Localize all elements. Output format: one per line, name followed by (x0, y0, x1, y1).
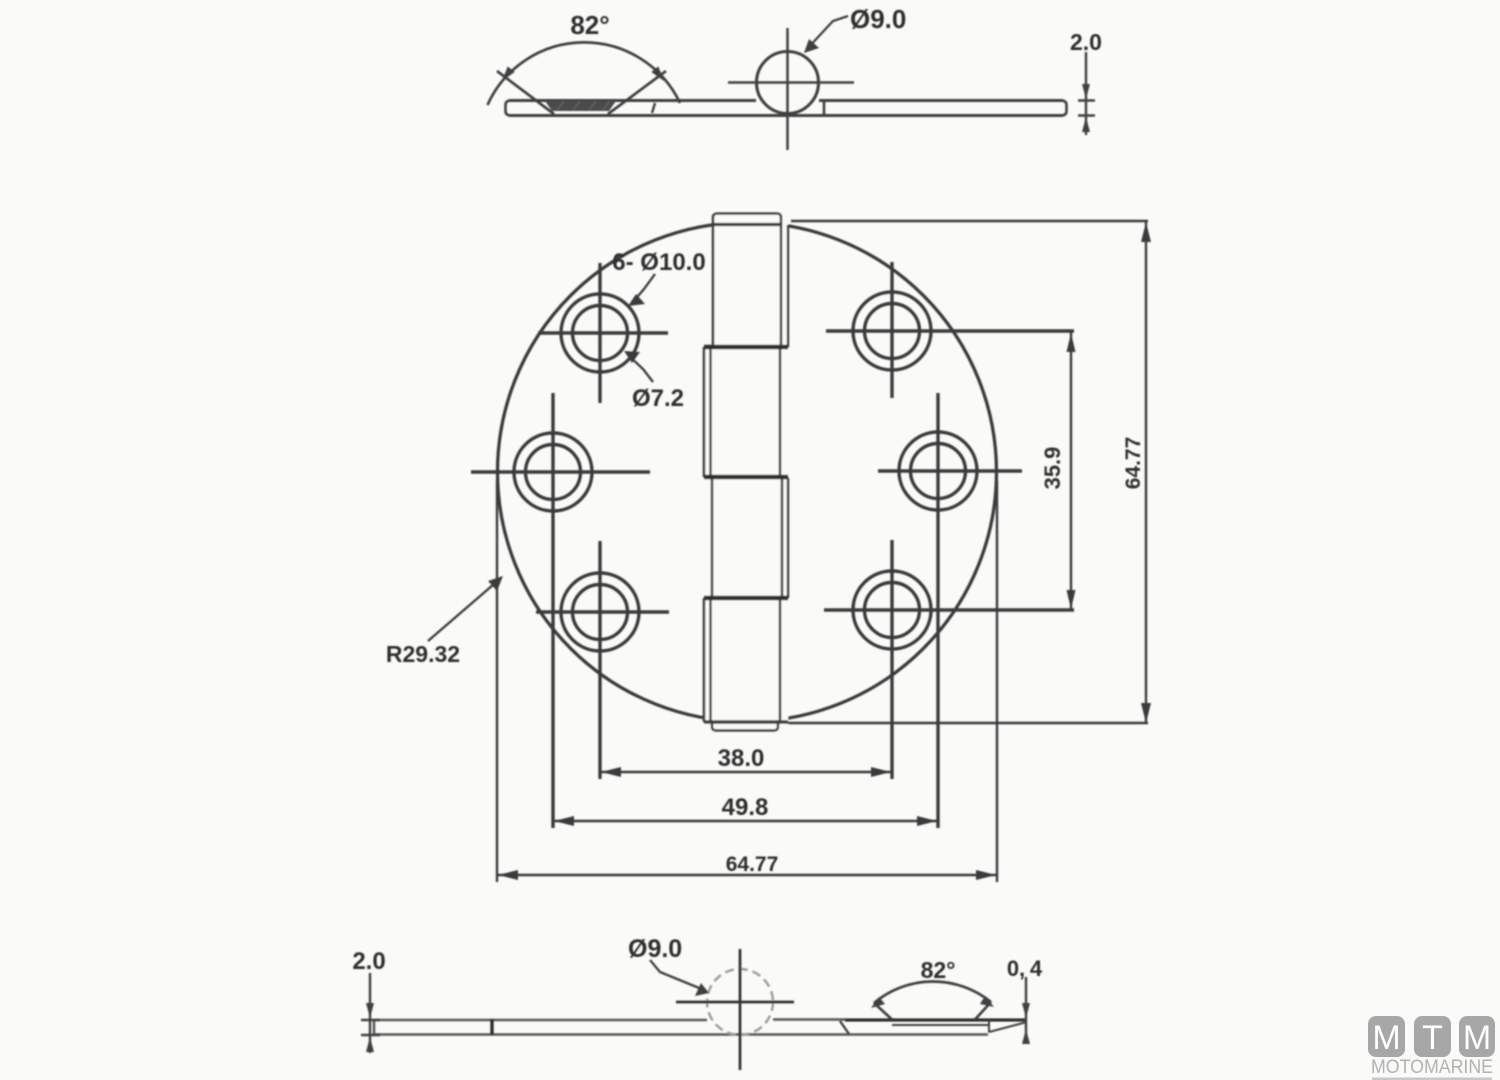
38.0 left arrowhead (601, 767, 621, 777)
barrel crosshair vertical (739, 949, 742, 1070)
vertical 35.9 dimension line (1070, 332, 1072, 610)
barrel bottom joint (704, 720, 788, 723)
barrel bottom cap (712, 722, 778, 731)
dimension line 64.77 horizontal (497, 874, 997, 876)
leaf divider tick (490, 1019, 493, 1035)
hole top-left inner (573, 306, 628, 361)
vertical 64.77 top arrowhead (1141, 222, 1151, 242)
svg-text:2.0: 2.0 (1070, 29, 1102, 55)
plate top edge (left of barrel) (509, 99, 756, 102)
dimension line 49.8 (553, 820, 938, 822)
svg-text:64.77: 64.77 (1122, 437, 1145, 490)
dia 9.0 leader arrowhead (695, 983, 709, 996)
vertical 35.9 bottom arrowhead (1067, 590, 1076, 609)
plate top edge right thick segment (845, 1018, 1026, 1021)
barrel crosshair horizontal (676, 1001, 794, 1004)
38.0 right arrowhead (871, 767, 891, 777)
hole mid-left outer (514, 433, 592, 511)
svg-text:6- Ø10.0: 6- Ø10.0 (612, 249, 705, 276)
barrel knuckle 2 (704, 347, 780, 477)
leader R29.32 (428, 578, 501, 641)
leader 6-dia10.0 (632, 274, 655, 303)
bottom extension line (788, 722, 1148, 724)
hole top-right outer (853, 292, 931, 370)
barrel crosshair horizontal (728, 81, 854, 84)
hole bottom-left crosshair (536, 541, 669, 779)
svg-text:0,: 0, (1007, 956, 1025, 981)
countersink right slant line (608, 71, 666, 114)
hole mid-right inner (911, 444, 966, 499)
hole bottom-right inner (865, 583, 920, 638)
leader dia7.2 arrowhead (624, 351, 640, 363)
plate top edge (right of barrel) (819, 99, 1063, 102)
hole mid-left inner (526, 445, 581, 500)
barrel joint line 2 (704, 475, 788, 480)
barrel top cap (713, 214, 781, 225)
0.4 dimension line (1025, 977, 1027, 1043)
svg-text:82°: 82° (570, 10, 609, 40)
hole mid-right outer (899, 432, 977, 510)
thickness 2.0 extension ticks (1078, 101, 1095, 116)
right extension line of 64.77 width (996, 481, 998, 882)
logo square T (1414, 1016, 1451, 1057)
vertical 64.77 bottom arrowhead (1141, 703, 1151, 723)
angle arc right arrowhead (651, 66, 664, 81)
vertical 64.77 dimension line (1145, 222, 1147, 723)
dia 9.0 leader line (807, 16, 848, 49)
64.77 left arrowhead (498, 870, 518, 880)
countersink dome left side (874, 1003, 892, 1020)
svg-text:49.8: 49.8 (722, 794, 769, 821)
dia 9.0 leader arrowhead (804, 39, 819, 53)
64.77 right arrowhead (976, 870, 996, 880)
tapered end bottom edge (989, 1023, 1025, 1033)
hole top-right inner (865, 304, 920, 359)
plate left end (373, 1019, 376, 1036)
dia 9.0 leader (650, 960, 704, 990)
2.0 upper arrowhead (366, 1003, 374, 1018)
plate top edge left segment (374, 1019, 707, 1022)
barrel crosshair vertical (786, 28, 789, 150)
hole top-left crosshair (538, 263, 668, 403)
barrel knuckle 4 (704, 598, 780, 722)
logo clipped bottom line (1372, 1078, 1492, 1080)
barrel joint line 3 (704, 596, 788, 601)
svg-text:4: 4 (1030, 956, 1043, 981)
svg-text:M: M (1372, 1019, 1400, 1057)
dome right arrowhead (980, 996, 994, 1007)
82 degree angle arc (488, 42, 681, 105)
svg-text:R29.32: R29.32 (386, 641, 460, 667)
svg-text:T: T (1422, 1019, 1443, 1057)
svg-text:82°: 82° (921, 957, 956, 983)
49.8 left arrowhead (554, 816, 574, 826)
plate top edge middle segment (773, 1018, 845, 1021)
hole bottom-left outer (561, 573, 639, 651)
plate bottom edge (509, 114, 1063, 117)
countersink hatched band (545, 101, 616, 111)
hole top-right crosshair (826, 262, 1074, 398)
svg-text:M: M (1463, 1019, 1491, 1057)
under-dome hidden edge (892, 1024, 988, 1026)
hole bottom-left inner (573, 585, 628, 640)
angle arc left arrowhead (502, 66, 515, 81)
dimension line 38.0 (600, 771, 892, 773)
countersink left slant line (497, 71, 554, 114)
leaf step (840, 1021, 849, 1034)
hole mid-left crosshair (471, 393, 650, 828)
svg-text:2.0: 2.0 (352, 948, 385, 975)
tapered end right edge (988, 1020, 990, 1033)
svg-text:Ø9.0: Ø9.0 (628, 935, 682, 963)
barrel knuckle 1 (713, 224, 781, 347)
0.4 lower arrowhead (1022, 1029, 1030, 1044)
hole top-left outer (561, 294, 639, 372)
logo square M left (1368, 1016, 1405, 1057)
plate bottom edge (374, 1033, 988, 1036)
logo square M right (1459, 1016, 1495, 1057)
svg-text:38.0: 38.0 (718, 745, 765, 772)
thickness 2.0 lower arrowhead (1082, 117, 1090, 132)
svg-text:MOTOMARINE: MOTOMARINE (1371, 1056, 1493, 1078)
svg-text:64.77: 64.77 (726, 853, 779, 876)
0.4 upper arrowhead (1022, 1003, 1030, 1018)
thickness 2.0 dimension line (1085, 52, 1087, 135)
svg-text:Ø9.0: Ø9.0 (850, 4, 906, 34)
left extension line of 64.77 width (496, 481, 498, 882)
leaf divider tick (823, 101, 826, 116)
2.0 dimension line (369, 973, 371, 1053)
top extension line (791, 220, 1148, 222)
small tick right of countersink (652, 103, 655, 113)
white mask over circle for barrel (704, 212, 788, 732)
leader dia7.2 (628, 355, 653, 382)
hole bottom-right outer (853, 571, 931, 649)
barrel circle (757, 52, 819, 114)
hole bottom-right crosshair (824, 540, 1074, 779)
thickness 2.0 upper arrowhead (1082, 84, 1090, 99)
2.0 extension ticks (361, 1020, 380, 1035)
countersink dome top arc (874, 982, 991, 1003)
svg-text:Ø7.2: Ø7.2 (632, 385, 684, 412)
leader 6-dia10.0 arrowhead (628, 294, 645, 306)
2.0 lower arrowhead (366, 1037, 374, 1052)
hole mid-right crosshair (878, 393, 1022, 828)
49.8 right arrowhead (917, 816, 937, 826)
leader R29.32 arrowhead (488, 576, 503, 591)
svg-text:35.9: 35.9 (1040, 447, 1065, 490)
plate left rounded end (506, 101, 512, 116)
hinge outer circle (498, 223, 997, 722)
plate right rounded end (1061, 101, 1067, 116)
vertical 35.9 top arrowhead (1067, 333, 1076, 352)
barrel joint line 1 (704, 345, 788, 350)
countersink dome right side (975, 1002, 991, 1020)
barrel hidden circle (707, 969, 773, 1035)
dome left arrowhead (871, 997, 885, 1008)
barrel knuckle 3 (712, 477, 782, 598)
